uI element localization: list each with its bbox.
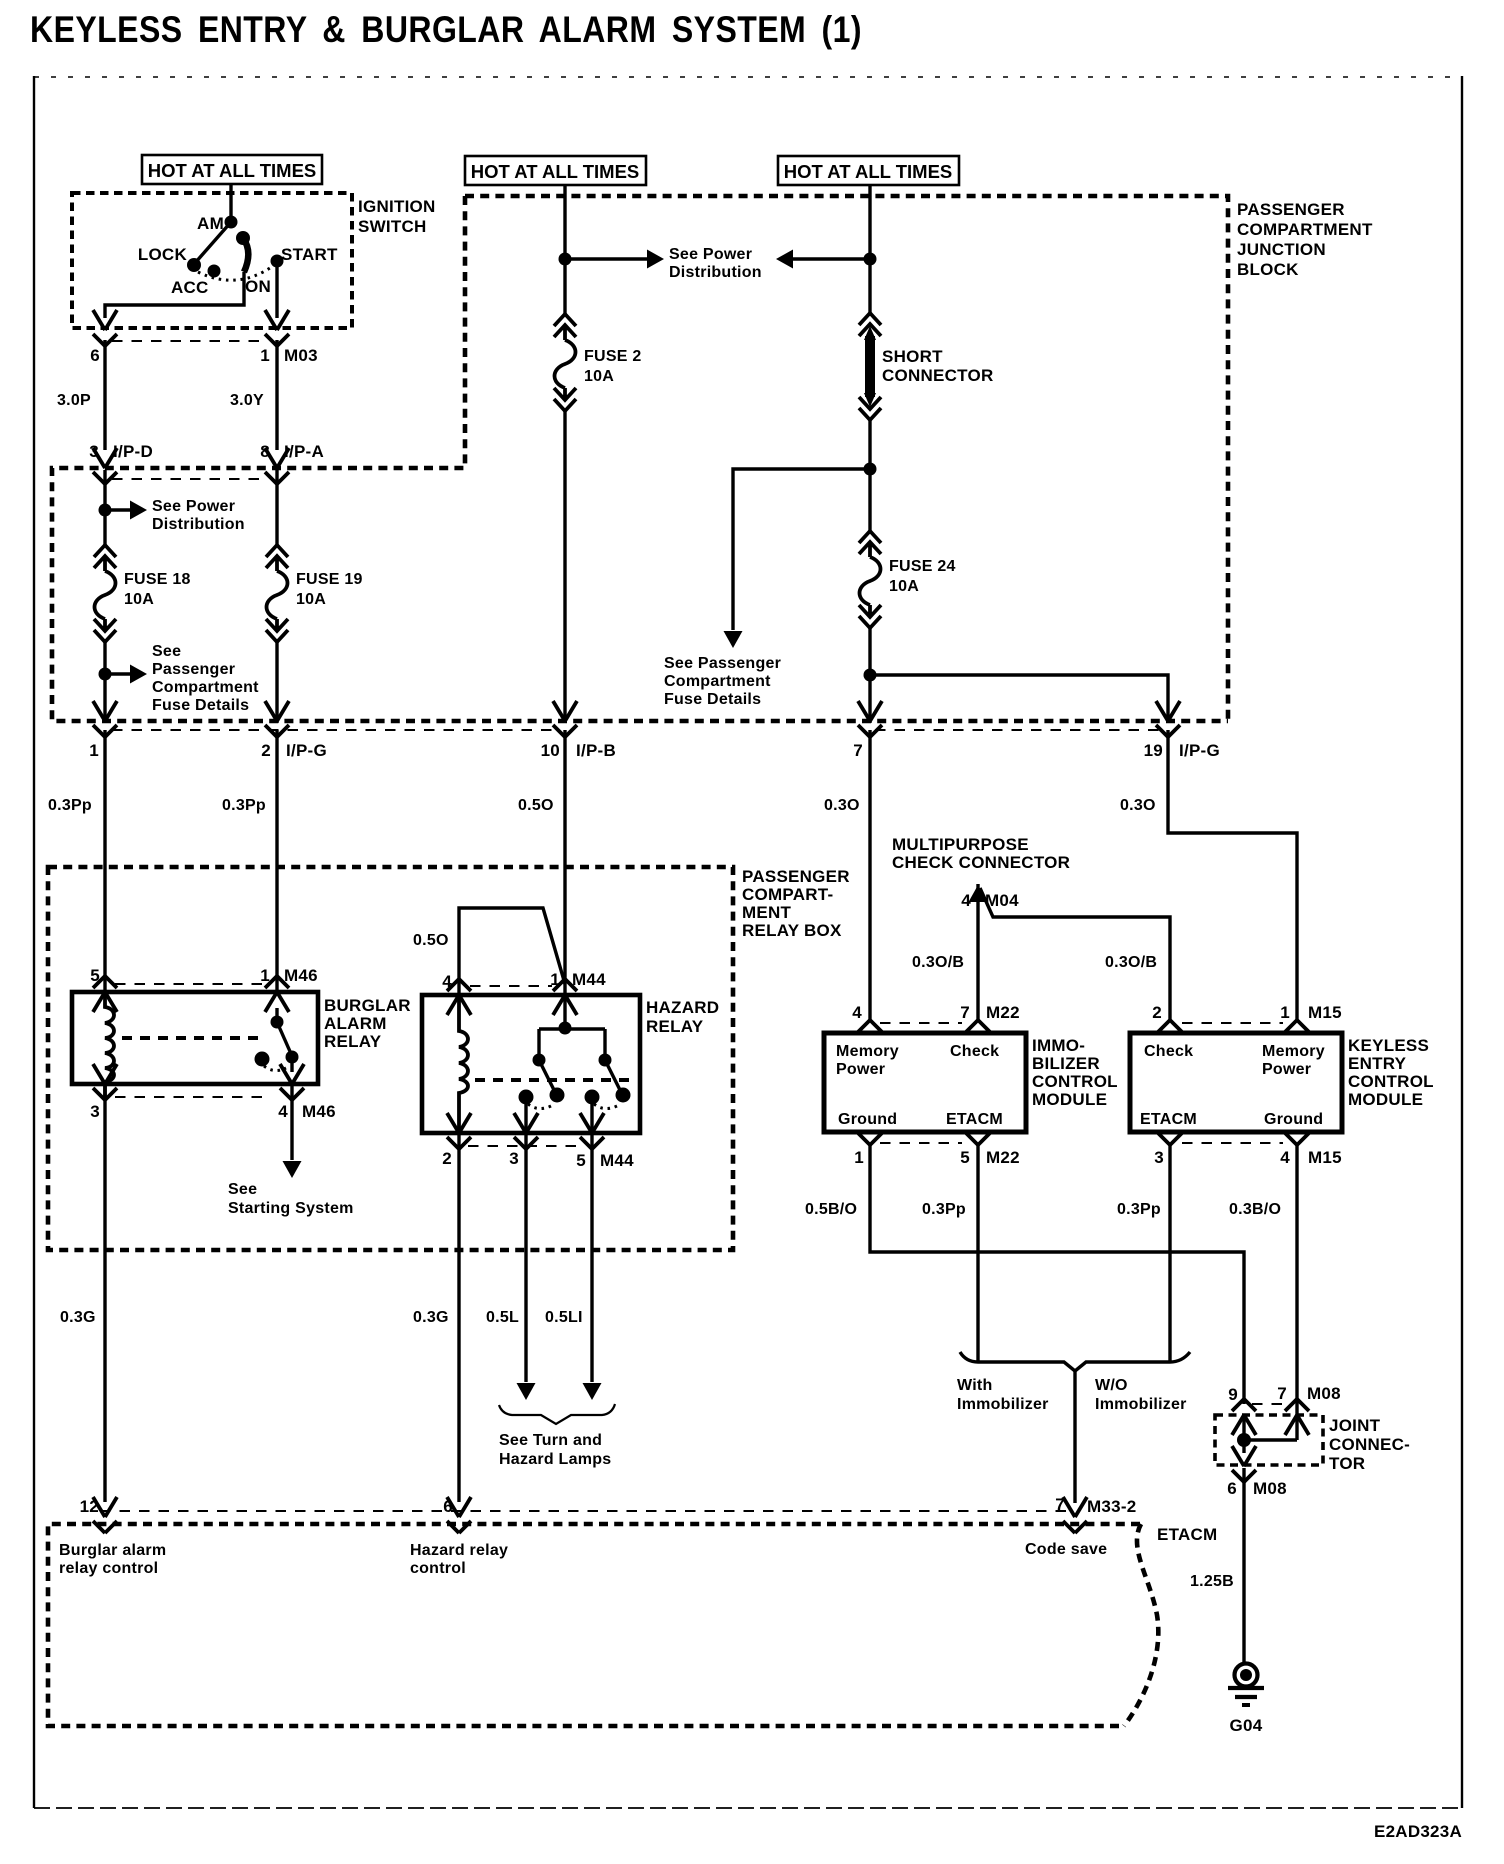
connector M33-2 pin 7 — [1055, 1495, 1136, 1533]
svg-text:See Power: See Power — [669, 246, 752, 263]
node ACC — [208, 265, 221, 278]
svg-text:3: 3 — [1154, 1148, 1164, 1167]
connector I/P-D pin 3 — [89, 442, 153, 484]
svg-text:2: 2 — [261, 741, 271, 760]
svg-text:LOCK: LOCK — [138, 245, 188, 264]
svg-text:See Power: See Power — [152, 498, 235, 515]
connector link dash below junction block — [112, 729, 560, 731]
svg-text:Immobilizer: Immobilizer — [957, 1396, 1049, 1413]
wire from box top to AM node — [229, 184, 232, 222]
hazard relay switch feed — [533, 995, 612, 1067]
svg-text:COMPARTMENT: COMPARTMENT — [1237, 220, 1373, 239]
hazard relay pin 5 M44 connector — [576, 1113, 634, 1170]
svg-text:Power: Power — [1262, 1061, 1311, 1078]
wire pin3 I/P-D down through junction block — [103, 470, 106, 723]
svg-text:4: 4 — [1280, 1148, 1290, 1167]
svg-text:M22: M22 — [986, 1003, 1020, 1022]
svg-text:Fuse Details: Fuse Details — [152, 697, 249, 714]
joint connector internal wires — [1237, 1415, 1297, 1453]
svg-text:PASSENGER: PASSENGER — [1237, 200, 1345, 219]
wire 0.5LI hazard pin5 to hazard lamps — [545, 1135, 602, 1400]
wire fuse2 to I/P-B connector — [563, 411, 566, 723]
svg-text:Burglar alarm: Burglar alarm — [59, 1542, 166, 1559]
burglar relay pin 5 connector — [90, 966, 117, 1012]
svg-text:CHECK CONNECTOR: CHECK CONNECTOR — [892, 853, 1070, 872]
svg-text:M22: M22 — [986, 1148, 1020, 1167]
svg-text:CONTROL: CONTROL — [1032, 1072, 1118, 1091]
connector pin 2 I/P-G — [261, 701, 327, 760]
svg-text:0.3Pp: 0.3Pp — [48, 797, 92, 814]
keyless pin 2 — [1152, 1003, 1183, 1033]
svg-text:0.3O: 0.3O — [824, 797, 860, 814]
connector pin 6 hazard relay control — [443, 1497, 471, 1533]
svg-text:3: 3 — [509, 1149, 519, 1168]
svg-text:START: START — [281, 245, 338, 264]
svg-text:FUSE 19: FUSE 19 — [296, 571, 363, 588]
hazard relay pin 3 connector — [509, 1113, 538, 1168]
svg-text:BILIZER: BILIZER — [1032, 1054, 1100, 1073]
see passenger compartment fuse details text (center) — [664, 655, 781, 708]
keyless pin 1 M15 — [1280, 1003, 1342, 1033]
connector M03 pin 6 — [93, 310, 117, 346]
wire 0.3O from pin19 to keyless memory power — [1120, 730, 1297, 1022]
svg-text:M33-2: M33-2 — [1087, 1497, 1136, 1516]
svg-text:COMPART-: COMPART- — [742, 885, 833, 904]
svg-text:See Passenger: See Passenger — [664, 655, 781, 672]
hazard relay pin 4 connector — [442, 972, 471, 1015]
joint connector label — [1329, 1416, 1410, 1473]
node START — [271, 255, 284, 268]
svg-text:ALARM: ALARM — [324, 1014, 387, 1033]
svg-text:7: 7 — [853, 741, 863, 760]
wire 0.3O from pin7 to immobilizer memory power — [824, 730, 870, 1022]
svg-text:0.3Pp: 0.3Pp — [222, 797, 266, 814]
svg-text:Power: Power — [836, 1061, 885, 1078]
connector M03 pin 1 — [265, 310, 289, 346]
svg-text:M03: M03 — [284, 346, 318, 365]
svg-text:10: 10 — [541, 741, 560, 760]
svg-text:5: 5 — [960, 1148, 970, 1167]
svg-text:M46: M46 — [284, 966, 318, 985]
svg-text:CONNEC-: CONNEC- — [1329, 1435, 1410, 1454]
immobilizer pin 4 — [852, 1003, 883, 1033]
wire pin8 I/P-A down through junction block — [275, 470, 278, 723]
fuse FUSE2 10A — [554, 314, 642, 411]
hazard relay pin 2 connector — [442, 1113, 471, 1168]
svg-text:1: 1 — [89, 741, 99, 760]
svg-text:PASSENGER: PASSENGER — [742, 867, 850, 886]
svg-text:BURGLAR: BURGLAR — [324, 996, 411, 1015]
svg-text:19: 19 — [1144, 741, 1163, 760]
svg-text:CONTROL: CONTROL — [1348, 1072, 1434, 1091]
etacm module dashed boundary — [48, 1524, 1140, 1726]
hot at all times label 3 — [778, 156, 959, 185]
svg-text:0.3Pp: 0.3Pp — [1117, 1201, 1161, 1218]
ground G04 — [1228, 1664, 1264, 1736]
passenger compartment relay box dashed boundary — [48, 867, 733, 1250]
wire HOT2 down to fuse 2 — [559, 186, 572, 315]
svg-text:0.3O/B: 0.3O/B — [1105, 954, 1157, 971]
switch arm AM to LOCK — [195, 222, 231, 263]
svg-text:See Turn and: See Turn and — [499, 1432, 602, 1449]
svg-text:ETACM: ETACM — [1140, 1111, 1197, 1128]
wire fuse24 down to connector 7 — [864, 628, 877, 723]
svg-text:M44: M44 — [600, 1151, 634, 1170]
svg-text:M46: M46 — [302, 1102, 336, 1121]
svg-text:FUSE 24: FUSE 24 — [889, 558, 956, 575]
svg-text:Hazard Lamps: Hazard Lamps — [499, 1451, 611, 1468]
svg-text:I/P-G: I/P-G — [1179, 741, 1220, 760]
with immobilizer label — [957, 1377, 1049, 1413]
svg-text:M08: M08 — [1307, 1384, 1341, 1403]
svg-text:M15: M15 — [1308, 1003, 1342, 1022]
svg-text:Code save: Code save — [1025, 1541, 1107, 1558]
svg-text:See: See — [228, 1181, 257, 1198]
svg-text:JUNCTION: JUNCTION — [1237, 240, 1326, 259]
wire 0.5L hazard pin3 to turn lamps — [486, 1135, 536, 1400]
svg-text:6: 6 — [443, 1497, 453, 1516]
wire branch to see passenger fuse details arrow — [724, 469, 871, 648]
svg-text:I/P-G: I/P-G — [286, 741, 327, 760]
svg-text:MULTIPURPOSE: MULTIPURPOSE — [892, 835, 1029, 854]
svg-text:Memory: Memory — [1262, 1043, 1325, 1060]
svg-text:M08: M08 — [1253, 1479, 1287, 1498]
short connector — [859, 313, 994, 420]
keyless entry control module label — [1348, 1036, 1434, 1109]
keyless pin 3 — [1154, 1132, 1183, 1167]
hazard relay switch 2 — [585, 1060, 631, 1133]
wire 0.5O pin10 to hazard relay — [518, 730, 565, 995]
svg-text:FUSE 2: FUSE 2 — [584, 348, 642, 365]
svg-text:Compartment: Compartment — [664, 673, 771, 690]
svg-text:ETACM: ETACM — [946, 1111, 1003, 1128]
svg-text:MODULE: MODULE — [1348, 1090, 1423, 1109]
svg-text:0.5O: 0.5O — [518, 797, 554, 814]
hazard relay switch 1 — [519, 1060, 565, 1133]
svg-text:3: 3 — [89, 442, 99, 461]
svg-text:5: 5 — [576, 1151, 586, 1170]
immobilizer control module box — [824, 1033, 1026, 1132]
svg-text:See: See — [152, 643, 181, 660]
burglar relay pin 3 connector — [90, 1064, 117, 1121]
connector pin 1 at junction block exit — [89, 701, 117, 760]
svg-text:10A: 10A — [124, 591, 154, 608]
svg-text:Distribution: Distribution — [669, 264, 762, 281]
svg-text:Ground: Ground — [838, 1111, 897, 1128]
svg-text:BLOCK: BLOCK — [1237, 260, 1299, 279]
wire code save to M33-2 — [1073, 1371, 1076, 1503]
svg-text:SWITCH: SWITCH — [358, 217, 427, 236]
ignition switch dashed box — [72, 193, 436, 328]
joint connector link dash — [1252, 1403, 1290, 1405]
keyless pin 4 M15 — [1280, 1132, 1342, 1167]
hazard relay pin 1 M44 connector — [550, 970, 606, 1015]
see power distribution arrows (top center) — [565, 250, 870, 269]
svg-text:4: 4 — [442, 972, 452, 991]
hazard relay coil — [459, 997, 468, 1133]
svg-text:ON: ON — [245, 277, 271, 296]
wire 0.3Pp pin2 to burglar relay pin1 — [222, 730, 277, 992]
svg-text:9: 9 — [1228, 1385, 1238, 1404]
svg-text:3.0P: 3.0P — [57, 392, 91, 409]
dotted selector arc — [198, 266, 273, 280]
svg-text:5: 5 — [90, 966, 100, 985]
svg-text:2: 2 — [1152, 1003, 1162, 1022]
wire 3.0P — [57, 340, 105, 450]
svg-text:RELAY: RELAY — [646, 1017, 704, 1036]
svg-text:Ground: Ground — [1264, 1111, 1323, 1128]
joint connector pin 9 — [1228, 1385, 1256, 1435]
joint connector pin 6 M08 — [1227, 1446, 1287, 1498]
svg-text:ACC: ACC — [171, 278, 209, 297]
wire START to pin 1 — [275, 261, 278, 318]
immobilizer pin 5 M22 — [960, 1132, 1020, 1167]
svg-text:0.5LI: 0.5LI — [545, 1309, 583, 1326]
svg-text:MENT: MENT — [742, 903, 792, 922]
node ON with wiper curve — [236, 231, 250, 245]
multipurpose check connector label — [892, 835, 1070, 872]
svg-text:10A: 10A — [584, 368, 614, 385]
svg-text:10A: 10A — [296, 591, 326, 608]
svg-text:W/O: W/O — [1095, 1377, 1128, 1394]
svg-text:Passenger: Passenger — [152, 661, 235, 678]
svg-text:ETACM: ETACM — [1157, 1525, 1217, 1544]
hot at all times label 2 — [465, 156, 646, 185]
svg-text:JOINT: JOINT — [1329, 1416, 1381, 1435]
svg-text:ENTRY: ENTRY — [1348, 1054, 1407, 1073]
svg-text:M15: M15 — [1308, 1148, 1342, 1167]
svg-text:With: With — [957, 1377, 993, 1394]
svg-text:0.5B/O: 0.5B/O — [805, 1201, 857, 1218]
burglar relay top link dash — [115, 983, 265, 985]
svg-text:AM: AM — [197, 214, 224, 233]
burglar relay internal dash — [122, 1036, 266, 1040]
svg-text:0.3O/B: 0.3O/B — [912, 954, 964, 971]
wire short connector to fuse 24 — [864, 418, 877, 532]
fuse FUSE18 10A — [94, 545, 191, 642]
svg-text:6: 6 — [90, 346, 100, 365]
passenger compartment junction block label — [1237, 200, 1373, 279]
node see passenger fuse details tap — [99, 665, 148, 684]
hazard relay bottom link dash — [468, 1145, 580, 1147]
burglar relay bottom link dash — [115, 1096, 268, 1098]
burglar alarm relay control label — [59, 1542, 166, 1577]
keyless top link dash — [1182, 1022, 1283, 1024]
w/o immobilizer label — [1095, 1377, 1187, 1413]
svg-text:control: control — [410, 1560, 466, 1577]
svg-text:relay control: relay control — [59, 1560, 158, 1577]
svg-text:6: 6 — [1227, 1479, 1237, 1498]
hazard relay control label — [410, 1542, 508, 1577]
wire HOT3 down — [864, 186, 877, 316]
svg-text:0.3B/O: 0.3B/O — [1229, 1201, 1281, 1218]
thin dashed line above etacm boundary — [100, 1510, 1068, 1512]
wire 0.5O loop to hazard pin 4 — [413, 908, 565, 994]
etacm boundary s-curve — [1124, 1524, 1158, 1726]
svg-text:1: 1 — [1280, 1003, 1290, 1022]
node see power distribution tap — [99, 501, 148, 520]
svg-text:Compartment: Compartment — [152, 679, 259, 696]
immobilizer bottom link dash — [880, 1142, 962, 1144]
svg-text:0.5O: 0.5O — [413, 932, 449, 949]
wire 0.5B/O immobilizer ground to joint connector pin 9 — [805, 1145, 1244, 1404]
connector I/P link dash — [112, 478, 265, 480]
brace see turn and hazard lamps — [499, 1404, 615, 1468]
connector link dash below junction block right — [875, 729, 1163, 731]
burglar relay pin 4 M46 connector — [278, 1064, 336, 1121]
svg-text:RELAY BOX: RELAY BOX — [742, 921, 842, 940]
svg-text:I/P-A: I/P-A — [284, 442, 324, 461]
svg-text:0.3O: 0.3O — [1120, 797, 1156, 814]
passenger compartment relay box label — [742, 867, 850, 940]
svg-text:7: 7 — [1277, 1384, 1287, 1403]
svg-text:1: 1 — [260, 346, 270, 365]
svg-text:SHORT: SHORT — [882, 347, 943, 366]
see passenger compartment fuse details text (left) — [152, 643, 259, 714]
svg-text:HOT AT ALL TIMES: HOT AT ALL TIMES — [471, 161, 640, 182]
see power distribution text (top center) — [669, 246, 762, 281]
svg-text:HOT AT ALL TIMES: HOT AT ALL TIMES — [784, 161, 953, 182]
wire 3.0Y — [230, 340, 277, 450]
svg-text:1.25B: 1.25B — [1190, 1573, 1234, 1590]
svg-text:E2AD323A: E2AD323A — [1374, 1822, 1462, 1841]
immobilizer control module label — [1032, 1036, 1118, 1109]
wire 0.3G hazard pin2 down — [413, 1135, 459, 1502]
connector pin 12 burglar alarm relay control — [80, 1497, 117, 1533]
svg-text:0.3G: 0.3G — [413, 1309, 449, 1326]
burglar relay switch — [255, 1008, 299, 1072]
fuse FUSE24 10A — [859, 531, 956, 628]
wire 1.25B to ground — [1190, 1468, 1244, 1663]
svg-text:MODULE: MODULE — [1032, 1090, 1107, 1109]
svg-text:Check: Check — [950, 1043, 999, 1060]
svg-text:Fuse Details: Fuse Details — [664, 691, 761, 708]
keyless entry control module box — [1130, 1033, 1342, 1132]
svg-text:3: 3 — [90, 1102, 100, 1121]
joint connector pin 7 M08 — [1277, 1384, 1341, 1435]
svg-text:I/P-D: I/P-D — [113, 442, 153, 461]
svg-text:0.3G: 0.3G — [60, 1309, 96, 1326]
svg-text:HAZARD: HAZARD — [646, 998, 719, 1017]
wire 0.3Pp pin1 to burglar relay pin5 — [48, 730, 105, 992]
connector pin 10 I/P-B — [541, 701, 616, 760]
hazard relay internal dash — [475, 1078, 635, 1082]
wire 0.3B/O keyless ground to joint connector pin 7 — [1229, 1145, 1297, 1440]
svg-text:G04: G04 — [1230, 1716, 1263, 1735]
connector pin 19 I/P-G — [1144, 701, 1220, 760]
immobilizer pin 1 — [854, 1132, 883, 1167]
immobilizer pin 7 M22 — [960, 1003, 1020, 1033]
connector pin 7 — [853, 701, 882, 760]
svg-text:IGNITION: IGNITION — [358, 197, 436, 216]
svg-text:Distribution: Distribution — [152, 516, 245, 533]
svg-text:2: 2 — [442, 1149, 452, 1168]
brace with/without immobilizer merge — [960, 1352, 1190, 1371]
svg-text:0.5L: 0.5L — [486, 1309, 519, 1326]
fuse FUSE19 10A — [266, 545, 363, 642]
hot at all times label 1 — [142, 155, 322, 184]
svg-text:1: 1 — [854, 1148, 864, 1167]
svg-text:4: 4 — [852, 1003, 862, 1022]
connector M03 labels — [90, 346, 318, 365]
svg-text:FUSE 18: FUSE 18 — [124, 571, 191, 588]
svg-text:RELAY: RELAY — [324, 1032, 382, 1051]
wire branch to connector 19 — [870, 675, 1168, 723]
svg-text:Starting System: Starting System — [228, 1200, 354, 1217]
svg-text:TOR: TOR — [1329, 1454, 1365, 1473]
svg-text:3.0Y: 3.0Y — [230, 392, 264, 409]
burglar relay pin 1 M46 connector — [260, 966, 318, 1012]
wire 0.3G burglar pin3 down — [60, 1086, 105, 1502]
svg-text:I/P-B: I/P-B — [576, 741, 616, 760]
svg-text:0.3Pp: 0.3Pp — [922, 1201, 966, 1218]
connector M03 link dash — [112, 340, 262, 342]
svg-text:Memory: Memory — [836, 1043, 899, 1060]
svg-text:1: 1 — [260, 966, 270, 985]
svg-text:7: 7 — [960, 1003, 970, 1022]
wire ON to pin 6 — [105, 272, 244, 318]
svg-text:Immobilizer: Immobilizer — [1095, 1396, 1187, 1413]
immobilizer top link dash — [880, 1022, 962, 1024]
svg-text:12: 12 — [80, 1497, 99, 1516]
connector I/P-A pin 8 — [260, 442, 324, 484]
svg-text:4: 4 — [961, 891, 971, 910]
keyless bottom link dash — [1182, 1142, 1283, 1144]
svg-text:8: 8 — [260, 442, 270, 461]
svg-text:Hazard relay: Hazard relay — [410, 1542, 508, 1559]
wire 0.3Pp keyless ETACM down — [1117, 1145, 1170, 1361]
connector M04 pin 4 arrow — [961, 884, 1019, 1022]
svg-text:Check: Check — [1144, 1043, 1193, 1060]
burglar alarm relay box — [72, 992, 411, 1084]
wire pin4 to see starting system — [228, 1086, 354, 1217]
see power distribution text (left) — [152, 498, 245, 533]
wire 0.3Pp immobilizer ETACM down — [922, 1145, 978, 1361]
svg-text:KEYLESS ENTRY & BURGLAR ALARM: KEYLESS ENTRY & BURGLAR ALARM SYSTEM (1) — [30, 9, 862, 50]
node AM — [225, 216, 238, 229]
hazard relay box — [422, 995, 719, 1133]
svg-text:M44: M44 — [572, 970, 606, 989]
svg-text:KEYLESS: KEYLESS — [1348, 1036, 1429, 1055]
svg-text:IMMO-: IMMO- — [1032, 1036, 1085, 1055]
burglar relay coil — [105, 992, 114, 1096]
node LOCK — [187, 258, 201, 272]
svg-text:HOT AT ALL TIMES: HOT AT ALL TIMES — [148, 160, 317, 181]
joint connector dashed box — [1215, 1415, 1323, 1465]
ignition switch internals — [105, 184, 338, 318]
wire 0.3O/B to keyless check — [980, 888, 1170, 1022]
passenger compartment junction block boundary — [52, 196, 1228, 721]
svg-text:10A: 10A — [889, 578, 919, 595]
svg-text:4: 4 — [278, 1102, 288, 1121]
hazard relay top link dash — [470, 985, 552, 987]
svg-text:CONNECTOR: CONNECTOR — [882, 366, 994, 385]
